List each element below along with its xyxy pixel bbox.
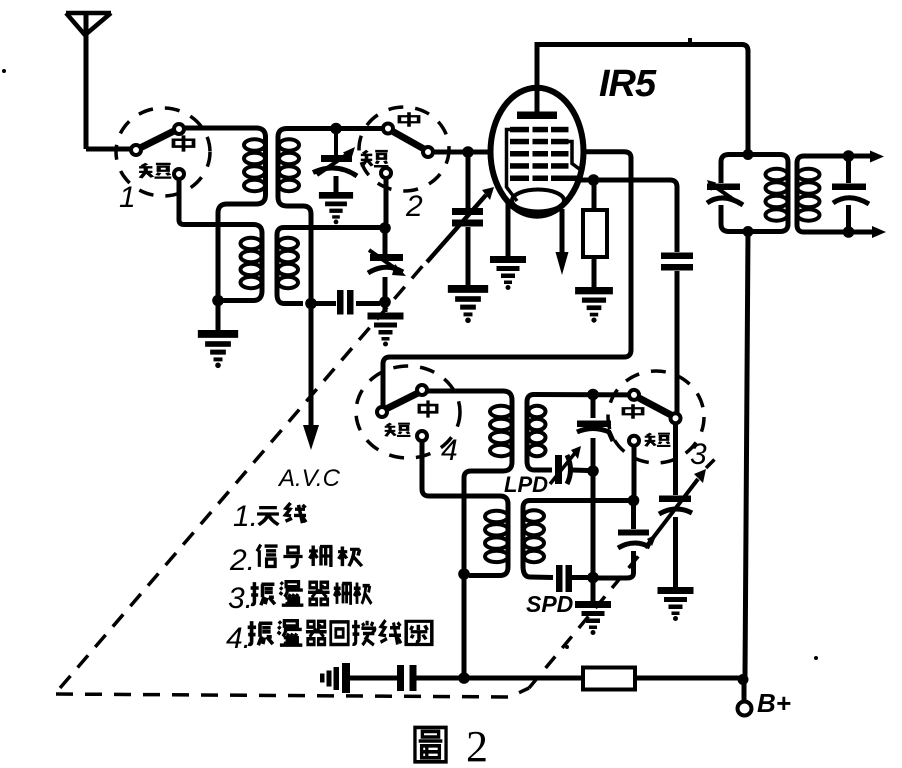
anode wire to IF transformer <box>537 45 748 151</box>
LPD padder capacitor <box>550 446 588 484</box>
IF transformer primary tank <box>721 155 788 232</box>
IF primary trimmer capacitor <box>707 180 743 205</box>
oscillator feedback coil SW <box>469 496 508 576</box>
switch S1 common contact <box>131 145 141 155</box>
wire SW contact S2 down <box>384 178 389 223</box>
legend item 3 DANG <box>280 582 304 606</box>
tuning gang capacitor (signal grid) <box>427 157 494 285</box>
legend item 3 ZHA <box>334 583 352 605</box>
scan speck <box>565 645 569 649</box>
S3 SW label DUAN <box>645 433 671 446</box>
tube IR5 envelope <box>491 88 584 216</box>
wire S2 common to tube grid <box>433 150 492 155</box>
legend item 4 HUI <box>331 622 348 645</box>
S2 SW label DUAN <box>361 151 389 167</box>
gang coupling dashed line (bottom) <box>56 688 529 697</box>
legend item 2 JI <box>338 546 362 566</box>
junction node <box>738 674 749 685</box>
svg-text:3.: 3. <box>228 582 253 615</box>
switch S3 common contact <box>671 413 681 423</box>
S2 MW label ZHONG <box>399 112 418 126</box>
legend item 4 DANG <box>278 621 303 645</box>
junction node <box>843 150 855 162</box>
oscillator tank vertical with fixed capacitor <box>591 399 596 573</box>
oscillator grid coil MW <box>527 395 552 471</box>
svg-text:LPD: LPD <box>504 472 548 497</box>
text labels <box>119 181 707 471</box>
scan speck <box>2 69 6 73</box>
svg-text:4: 4 <box>441 434 458 467</box>
B+ rail wire <box>417 676 584 681</box>
legend item 2 HAO <box>283 547 302 567</box>
trimmer capacitor SW (below node 385) <box>368 233 406 298</box>
tube cathode leg to ground <box>506 203 511 256</box>
junction node <box>843 226 855 238</box>
junction node <box>330 123 342 135</box>
band switch S1 dashed halo <box>116 108 210 196</box>
IF output lead bottom with arrow <box>849 226 887 238</box>
scan speck <box>814 656 818 660</box>
IF output lead top with arrow <box>849 151 885 163</box>
ground under SW padder <box>658 587 694 621</box>
wire S4 SW contact down to SW feedback coil <box>422 441 500 496</box>
legend item 4 ZHEN <box>248 621 273 645</box>
coil L1 (MW antenna primary) <box>218 128 266 330</box>
band switch S2 dashed halo <box>359 107 449 191</box>
switch S3 contact SW <box>629 436 639 446</box>
series capacitor (AVC coupling) <box>311 290 380 315</box>
B+ terminal <box>742 682 747 701</box>
junction node <box>743 149 754 160</box>
switch S3 arm <box>639 398 671 415</box>
wire S1 MW contact to coil L1 <box>184 126 257 131</box>
SPD padder capacitor <box>556 565 588 592</box>
wire top of MW osc coil to S3 <box>534 392 630 397</box>
B+ rail bypass capacitor with side ground <box>320 663 417 693</box>
svg-text:3: 3 <box>690 438 707 471</box>
legend item 4 SHOU <box>352 620 376 645</box>
switch S1 arm <box>140 131 174 148</box>
screen dropping resistor <box>583 184 607 287</box>
legend item 3 QI <box>308 582 330 604</box>
coil L3 (SW antenna primary) <box>223 233 262 301</box>
junction node <box>305 298 317 310</box>
tube grid lead right <box>566 142 580 170</box>
ground under gang capacitor <box>448 285 488 323</box>
ground under L1 <box>198 330 238 368</box>
svg-text:1.: 1. <box>233 500 258 533</box>
ground under oscillator tank <box>591 577 596 601</box>
switch S4 contact SW <box>417 431 427 441</box>
oscillator feedback coil MW <box>464 391 512 678</box>
legend item 3 ZHEN <box>251 582 275 605</box>
switch S4 arm <box>386 393 418 409</box>
feedback coupling capacitor <box>661 253 693 414</box>
junction node <box>379 222 391 234</box>
junction node <box>743 226 754 237</box>
legend item 3 JI <box>354 583 372 604</box>
switch S4 common contact <box>377 407 387 417</box>
signal grid wire from tube to oscillator switch S4 <box>383 152 631 407</box>
legend item 1 XIAN <box>286 503 307 523</box>
svg-text:SPD: SPD <box>526 591 573 617</box>
ground under resistor <box>575 287 613 323</box>
gang coupling dashed line (left) <box>60 262 426 688</box>
gang coupling dashed line (right) <box>529 547 646 688</box>
wire S4 MW contact to oscillator coil <box>427 389 503 394</box>
tube grid lead left <box>507 130 518 202</box>
junction node <box>588 174 600 186</box>
S4 SW label DUAN <box>385 423 411 436</box>
junction node <box>628 495 640 507</box>
legend item 4 XIAN <box>381 620 402 644</box>
svg-text:2.: 2. <box>229 544 255 577</box>
svg-text:A.V.C: A.V.C <box>277 465 341 492</box>
SW oscillator trimmer capacitor <box>598 505 657 578</box>
S1 SW label DUAN <box>139 164 171 178</box>
wire top of SW osc coil to S3 SW node <box>530 498 629 503</box>
svg-text:B+: B+ <box>757 688 791 718</box>
trimmer capacitor MW (at node 336) <box>313 129 357 193</box>
coil L2 (MW antenna secondary) <box>278 129 311 223</box>
svg-text:4.: 4. <box>226 622 251 655</box>
svg-text:2: 2 <box>466 722 488 768</box>
legend item 4 QI <box>306 621 327 644</box>
S1 MW label ZHONG <box>174 135 194 151</box>
junction node <box>458 672 470 684</box>
legend text <box>226 500 432 655</box>
B+ dropping resistor <box>583 668 635 690</box>
junction node <box>462 146 474 158</box>
coil L4 (SW antenna secondary) <box>277 228 303 304</box>
switch S2 contact MW <box>383 124 393 134</box>
wire S3 SW contact down <box>632 446 637 497</box>
legend item 4 QUAN <box>406 621 432 644</box>
legend item 2 XIN <box>257 545 278 567</box>
IF transformer secondary <box>797 156 849 232</box>
switch S3 contact MW <box>629 390 639 400</box>
ground under trimmer <box>319 192 353 224</box>
wire SW contact S1 down to coil L3 <box>179 179 262 233</box>
tube grid rows <box>510 127 578 181</box>
tube anode plate bar <box>517 112 557 120</box>
switch S1 contact SW <box>174 169 184 179</box>
svg-text:1: 1 <box>119 181 136 214</box>
S3 MW label ZHONG <box>623 404 642 418</box>
figure caption TU 2 <box>415 722 488 768</box>
AVC arrowhead <box>303 425 319 450</box>
junction node <box>458 568 470 580</box>
antenna <box>66 13 111 149</box>
junction node <box>587 465 599 477</box>
gang arrow on oscillator trimmers <box>646 479 698 547</box>
legend item 2 ZHA <box>309 546 332 568</box>
AVC line down from L2/L4 <box>309 222 314 427</box>
switch S2 common contact <box>423 147 433 157</box>
wire antenna to switch S1 <box>86 147 131 152</box>
SW padder capacitor to ground (S3 common branch) <box>659 423 692 587</box>
screen grid wire <box>578 180 677 252</box>
oscillator grid coil SW <box>523 501 553 578</box>
wire top of L2 to switch S2 <box>287 126 387 131</box>
switch S2 contact SW <box>381 168 391 178</box>
svg-text:IR5: IR5 <box>599 63 657 105</box>
svg-text:2: 2 <box>405 190 423 223</box>
CJK labels <box>139 112 670 446</box>
legend item 1 TIAN <box>257 508 279 525</box>
ground under node <box>383 304 388 312</box>
junction node <box>587 389 599 401</box>
B+ feed drop wire <box>745 232 748 677</box>
switch S1 contact MW <box>174 124 184 134</box>
B+ rail wire right <box>635 676 740 681</box>
switch S4 contact MW <box>417 385 427 395</box>
switch S2 arm <box>392 131 424 149</box>
wire top of L4 to SW node <box>284 225 380 230</box>
scan speck on top wire <box>688 38 692 45</box>
IF secondary capacitor <box>832 184 869 205</box>
band switch S4 dashed halo <box>356 366 460 458</box>
junction node <box>587 572 599 584</box>
band switch S3 dashed halo <box>608 371 704 463</box>
junction node on ground lead <box>212 295 224 307</box>
tube filament leg with arrow <box>560 209 565 253</box>
S4 MW label ZHONG <box>419 400 437 417</box>
junction node <box>379 296 391 308</box>
tube filament <box>512 190 564 212</box>
